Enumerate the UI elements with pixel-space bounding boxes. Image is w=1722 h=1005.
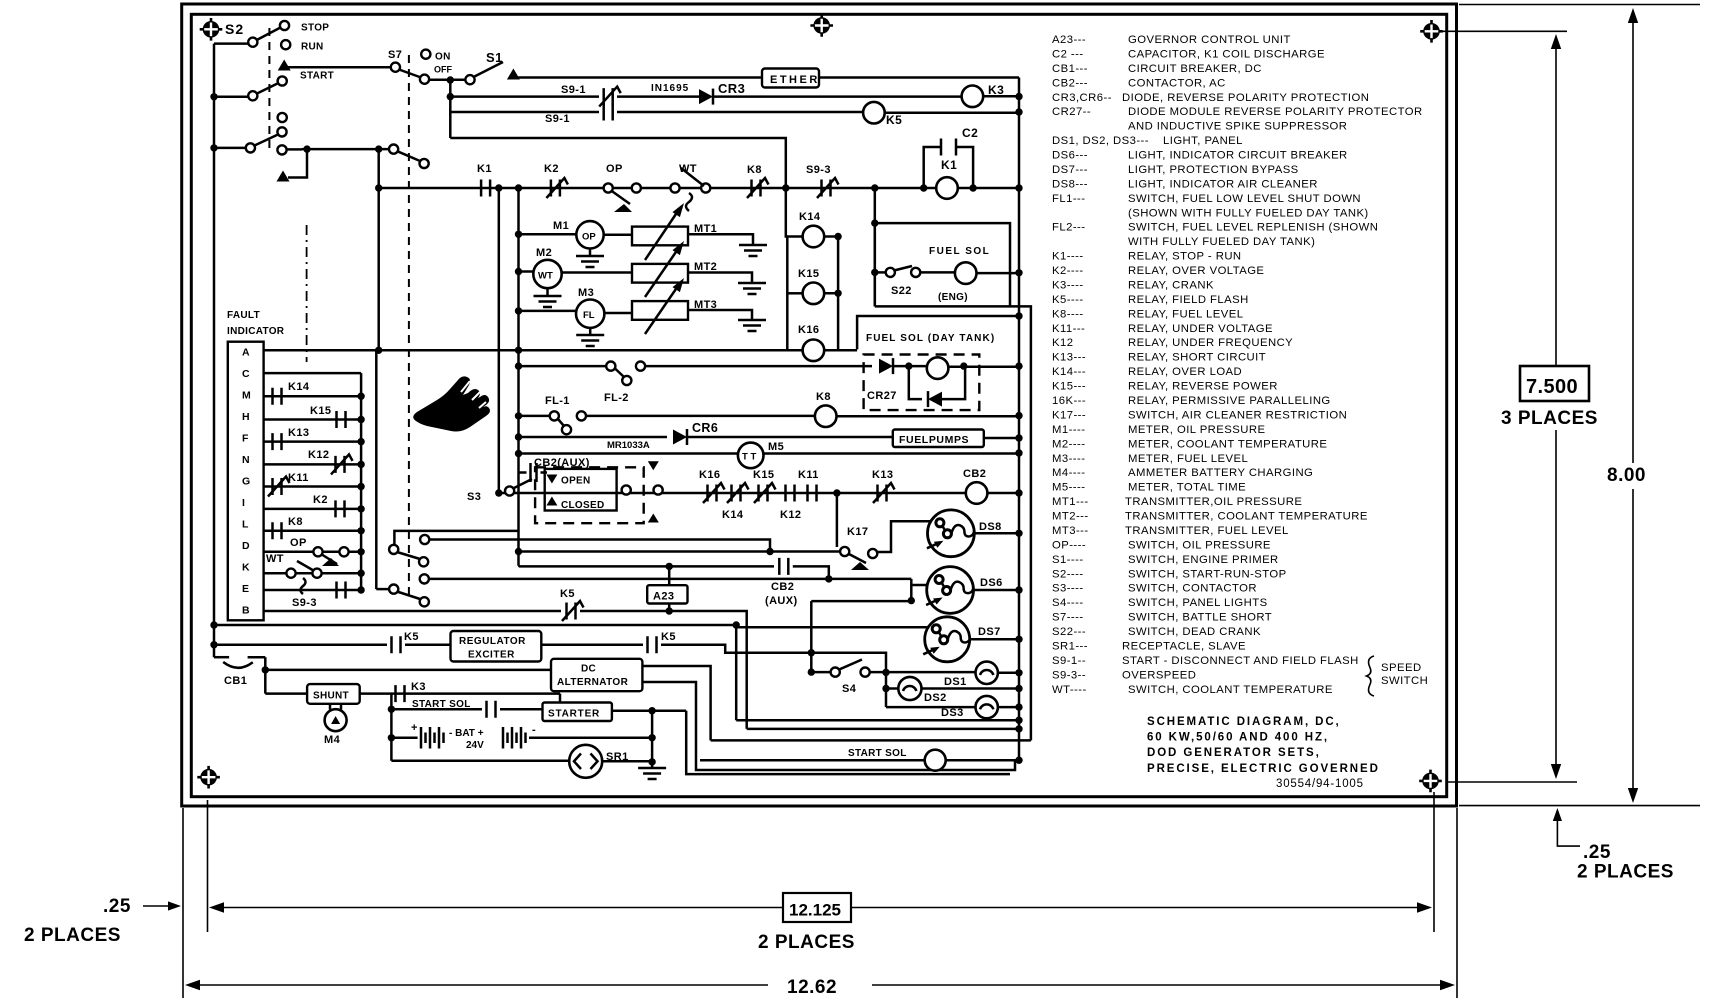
svg-text:K13: K13: [872, 469, 893, 481]
svg-text:(SHOWN WITH FULLY FUELED DAY T: (SHOWN WITH FULLY FUELED DAY TANK): [1128, 207, 1369, 219]
svg-text:LIGHT, PANEL: LIGHT, PANEL: [1163, 135, 1243, 147]
contact K2 (NC): [551, 180, 560, 197]
registration mark top-center: [810, 14, 833, 37]
svg-text:DOD GENERATOR SETS,: DOD GENERATOR SETS,: [1147, 747, 1321, 759]
dimension line 7.500 vertical: [1555, 46, 1557, 768]
svg-text:60 KW,50/60 AND 400 HZ,: 60 KW,50/60 AND 400 HZ,: [1147, 732, 1329, 744]
svg-text:TRANSMITTER, FUEL LEVEL: TRANSMITTER, FUEL LEVEL: [1125, 525, 1289, 537]
fault contact K11: [264, 485, 362, 488]
svg-text:L: L: [242, 519, 249, 531]
battery BAT 24V: [391, 737, 417, 740]
transmitter MT3: [632, 301, 688, 320]
fault switch OP: [264, 551, 362, 554]
svg-text:PRECISE, ELECTRIC GOVERNED: PRECISE, ELECTRIC GOVERNED: [1147, 763, 1380, 775]
extension line bottom-left outer: [182, 808, 184, 998]
solenoid FUEL SOL (DAY TANK): [905, 362, 912, 369]
wire to K5 coil: [617, 111, 863, 114]
leader .25 right: [1557, 818, 1580, 846]
svg-text:CR27--: CR27--: [1052, 106, 1091, 118]
svg-text:K11---: K11---: [1052, 323, 1085, 335]
svg-text:SWITCH, FUEL LOW LEVEL SHUT DO: SWITCH, FUEL LOW LEVEL SHUT DOWN: [1128, 193, 1361, 205]
svg-text:SWITCH, START-RUN-STOP: SWITCH, START-RUN-STOP: [1128, 568, 1287, 580]
fault indicator box: [228, 342, 264, 621]
svg-text:K11: K11: [798, 469, 819, 481]
wire M1 to MT1: [604, 234, 632, 237]
legend / parts list: [1052, 34, 1423, 696]
contact K8: [752, 180, 761, 197]
svg-text:DS6---: DS6---: [1052, 150, 1088, 162]
svg-text:FUEL SOL: FUEL SOL: [929, 246, 990, 257]
svg-text:OPEN: OPEN: [561, 476, 591, 487]
svg-text:A: A: [242, 347, 250, 359]
svg-text:ALTERNATOR: ALTERNATOR: [557, 677, 629, 688]
svg-text:DS7---: DS7---: [1052, 164, 1088, 176]
shunt resistor box: [307, 684, 360, 704]
wire start sol to bus: [946, 759, 1019, 762]
svg-text:-: -: [532, 724, 536, 736]
solenoid START SOL: [925, 750, 946, 771]
svg-text:SWITCH, BATTLE SHORT: SWITCH, BATTLE SHORT: [1128, 612, 1272, 624]
title block: [1147, 716, 1380, 775]
right bus vertical: [1018, 78, 1021, 761]
wire M5 to bus: [764, 452, 1020, 455]
svg-text:+: +: [411, 722, 417, 734]
svg-text:ON: ON: [435, 52, 451, 63]
starter box: [543, 703, 612, 722]
svg-text:2 PLACES: 2 PLACES: [758, 932, 855, 953]
relay coil K15: [786, 237, 789, 351]
box FUELPUMPS: [893, 430, 984, 448]
wire to regulator box: [405, 643, 451, 646]
S7 pole 2: [389, 145, 398, 154]
extension line bottom (7.500): [1447, 781, 1577, 783]
svg-text:WT: WT: [266, 553, 284, 565]
meter M3 (FL): [576, 300, 604, 328]
svg-text:RELAY, FUEL LEVEL: RELAY, FUEL LEVEL: [1128, 308, 1243, 320]
svg-text:K2----: K2----: [1052, 265, 1084, 277]
switch S2 pole 1: [214, 42, 248, 45]
svg-text:CR3: CR3: [718, 81, 745, 96]
wire long row A / K16: [515, 347, 522, 354]
svg-text:K14: K14: [799, 211, 821, 223]
feed rail x811: [811, 601, 831, 672]
contact K13 (NC): [878, 485, 887, 502]
svg-text:K15: K15: [310, 405, 331, 417]
registration mark bottom-left: [197, 766, 220, 789]
ground at SR1: [651, 762, 654, 768]
svg-text:D: D: [242, 540, 250, 552]
svg-text:3 PLACES: 3 PLACES: [1501, 408, 1598, 429]
node C2/K1 branch: [920, 184, 927, 191]
wire CR3 to K3 coil: [713, 95, 962, 98]
S2 contact 6: [277, 145, 286, 154]
contact START SOL: [487, 701, 496, 718]
wire DS7 row: [736, 626, 928, 629]
svg-text:DS1, DS2, DS3---: DS1, DS2, DS3---: [1052, 135, 1149, 147]
svg-text:MT2---: MT2---: [1052, 511, 1089, 523]
contact K16 (NC): [708, 485, 717, 502]
svg-text:E: E: [242, 583, 249, 595]
S7 lower pole A: [394, 531, 519, 550]
wire shunt row: [265, 692, 307, 695]
svg-text:K3: K3: [411, 681, 426, 693]
wire DS1 to bus: [998, 672, 1019, 675]
switch FL-2: [515, 362, 522, 369]
svg-text:FAULT: FAULT: [227, 310, 260, 321]
svg-text:A23---: A23---: [1052, 34, 1086, 46]
wire bottom row to SR1: [391, 760, 569, 763]
contact S9-11 capacitor: [604, 104, 613, 121]
svg-text:I: I: [242, 497, 245, 509]
svg-text:RELAY, UNDER FREQUENCY: RELAY, UNDER FREQUENCY: [1128, 337, 1293, 349]
S2 contact RUN: [281, 40, 290, 49]
svg-text:K12: K12: [1052, 337, 1073, 349]
svg-text:DIODE, REVERSE POLARITY PROTEC: DIODE, REVERSE POLARITY PROTECTION: [1122, 92, 1369, 104]
dimension line 8.00 vertical: [1632, 20, 1634, 790]
node vertical from S1 junction: [449, 80, 452, 138]
relay coil K5: [863, 102, 885, 124]
coil bank right rail: [824, 237, 838, 351]
wire rail row to CB2 aux contact: [519, 564, 775, 567]
svg-text:MT2: MT2: [694, 261, 717, 273]
wire K5 to staircase: [661, 645, 811, 653]
svg-text:K12: K12: [780, 509, 801, 521]
svg-text:K5: K5: [661, 631, 676, 643]
svg-text:K: K: [242, 562, 250, 574]
wire row 625 to DS7: [735, 625, 738, 627]
circuit breaker CB1: [214, 656, 229, 659]
fault switch WT: [264, 572, 362, 575]
dimension label box 12.125: [783, 893, 851, 922]
svg-text:SWITCH, OIL PRESSURE: SWITCH, OIL PRESSURE: [1128, 539, 1271, 551]
wire starter junction drop: [686, 711, 1010, 774]
wire K16 row to day tank frame: [824, 349, 857, 352]
wire DS8 to bus: [974, 532, 1019, 535]
extension line bottom (8.00 / .25): [1459, 805, 1700, 807]
meter M2 (WT): [533, 260, 561, 288]
svg-text:MR1033A: MR1033A: [607, 440, 650, 451]
svg-text:2 PLACES: 2 PLACES: [24, 925, 121, 946]
svg-text:K16: K16: [798, 324, 819, 336]
wire S9-1 row: [450, 95, 599, 98]
svg-text:C2 ---: C2 ---: [1052, 48, 1084, 60]
svg-text:2 PLACES: 2 PLACES: [1577, 862, 1674, 883]
svg-text:M4----: M4----: [1052, 467, 1085, 479]
vertical link fault row A to S7 poles: [376, 188, 378, 589]
svg-text:12.125: 12.125: [789, 901, 841, 920]
svg-text:8.00: 8.00: [1607, 465, 1646, 486]
wire MT1 to ground: [688, 234, 753, 245]
wire OFF to S1: [429, 79, 466, 82]
wire solenoid to bus: [960, 362, 967, 369]
svg-text:SHUNT: SHUNT: [313, 691, 349, 702]
svg-text:- BAT +: - BAT +: [449, 728, 484, 739]
svg-text:K2: K2: [313, 494, 328, 506]
contact K11: [808, 485, 817, 502]
svg-text:METER, FUEL LEVEL: METER, FUEL LEVEL: [1128, 453, 1248, 465]
extension line top (8.00): [1459, 4, 1700, 6]
svg-text:(ENG): (ENG): [938, 292, 968, 303]
svg-text:CLOSED: CLOSED: [561, 500, 604, 511]
svg-text:START - DISCONNECT AND FIELD F: START - DISCONNECT AND FIELD FLASH: [1122, 655, 1359, 667]
svg-text:LIGHT, PROTECTION BYPASS: LIGHT, PROTECTION BYPASS: [1128, 164, 1299, 176]
svg-text:WITH FULLY FUELED DAY TANK): WITH FULLY FUELED DAY TANK): [1128, 236, 1315, 248]
wire DC alternator out upper: [642, 666, 710, 740]
svg-text:S4: S4: [842, 683, 857, 695]
wire START SOL row: [700, 759, 925, 762]
wire S22 box bottom to right outer bus: [875, 306, 1031, 740]
svg-text:K8: K8: [288, 516, 303, 528]
switch WT (temperature): [670, 183, 679, 192]
contact S9-3 (NC): [822, 180, 831, 197]
svg-text:K13: K13: [288, 427, 309, 439]
svg-text:REGULATOR: REGULATOR: [459, 636, 526, 647]
wire CB2 aux to DS6 feed: [793, 566, 829, 579]
ETHER line start triangle: [507, 69, 520, 80]
extension line bottom-left inner: [207, 800, 209, 932]
svg-text:DS7: DS7: [978, 626, 1001, 638]
contact K3: [396, 685, 405, 702]
svg-text:K1----: K1----: [1052, 251, 1084, 263]
svg-text:.25: .25: [1583, 842, 1611, 863]
wire S9-11 row: [450, 111, 599, 114]
wire DS7 to bus: [970, 638, 1019, 641]
svg-text:K3----: K3----: [1052, 280, 1084, 292]
svg-text:CB2: CB2: [963, 468, 986, 480]
receptacle SR1: [569, 745, 602, 778]
governor unit A23: [668, 566, 671, 611]
wire CR6 row: [515, 433, 522, 440]
svg-text:.25: .25: [103, 896, 131, 917]
svg-text:FUEL SOL (DAY TANK): FUEL SOL (DAY TANK): [866, 333, 995, 344]
lamp DS6: [911, 584, 928, 587]
wire MT3 to ground: [688, 310, 752, 320]
svg-text:K15---: K15---: [1052, 381, 1086, 393]
svg-text:SCHEMATIC DIAGRAM, DC,: SCHEMATIC DIAGRAM, DC,: [1147, 716, 1341, 728]
panel lamp DS3: [886, 706, 976, 709]
S7 lower pole B: [376, 588, 389, 591]
svg-text:K14---: K14---: [1052, 366, 1086, 378]
switch FL-1: [515, 412, 522, 419]
day tank frame wire: [857, 316, 1019, 349]
svg-text:30554/94-1005: 30554/94-1005: [1276, 778, 1364, 790]
svg-text:OP: OP: [582, 232, 596, 243]
fault contact K2: [264, 508, 362, 511]
dashed module CR27: [864, 355, 980, 411]
rail meters: [517, 188, 520, 566]
svg-text:C: C: [242, 368, 250, 380]
markers at switch: [648, 461, 659, 470]
contact row y493: [514, 492, 966, 495]
wire M3 to MT3: [604, 312, 632, 315]
contact K5 (NC) on fault B row: [567, 603, 576, 620]
wire to starter box: [500, 708, 543, 711]
svg-text:K3: K3: [988, 83, 1004, 97]
svg-text:S9-1: S9-1: [545, 113, 570, 125]
svg-text:RELAY, OVER VOLTAGE: RELAY, OVER VOLTAGE: [1128, 265, 1264, 277]
start sol rail: [390, 694, 393, 761]
svg-text:CB2: CB2: [771, 581, 794, 593]
wire contact row: [379, 187, 1019, 190]
svg-text:LIGHT, INDICATOR AIR CLEANER: LIGHT, INDICATOR AIR CLEANER: [1128, 178, 1318, 190]
relay coil K8: [815, 405, 837, 427]
relay coil K14: [786, 188, 803, 237]
contact K12: [786, 485, 795, 502]
svg-text:WT----: WT----: [1052, 684, 1087, 696]
svg-text:SWITCH, PANEL LIGHTS: SWITCH, PANEL LIGHTS: [1128, 597, 1268, 609]
contactor coil CB2: [966, 482, 988, 504]
dashed boundary CB2 aux: [535, 467, 644, 523]
svg-text:7.500: 7.500: [1526, 376, 1578, 398]
svg-text:DIODE MODULE REVERSE POLARITY: DIODE MODULE REVERSE POLARITY PROTECTOR: [1128, 106, 1423, 118]
wire starter to junction: [612, 709, 686, 712]
svg-text:RELAY, FIELD FLASH: RELAY, FIELD FLASH: [1128, 294, 1249, 306]
contact K5: [392, 636, 401, 653]
wire regulator to K5 contact 2: [541, 643, 643, 646]
panel outer border: [182, 4, 1457, 806]
svg-text:M5: M5: [768, 441, 784, 453]
fault indicator letters: [242, 347, 251, 617]
svg-text:METER, OIL PRESSURE: METER, OIL PRESSURE: [1128, 424, 1265, 436]
wire row 625: [210, 621, 217, 628]
diode CR27 forward: [879, 359, 893, 374]
svg-text:K14: K14: [722, 509, 744, 521]
svg-text:SPEED: SPEED: [1381, 662, 1422, 674]
extension line bottom-right outer: [1456, 808, 1458, 998]
svg-text:M1----: M1----: [1052, 424, 1085, 436]
svg-text:STARTER: STARTER: [548, 709, 600, 720]
fault contact K12: [264, 463, 362, 466]
svg-text:K1: K1: [477, 163, 492, 175]
junction rail: [651, 711, 654, 762]
fault contact K14: [264, 395, 362, 398]
svg-text:FL-1: FL-1: [545, 395, 570, 407]
svg-text:M: M: [242, 390, 251, 402]
wire K5 to right bus: [885, 111, 1019, 114]
svg-text:DS6: DS6: [980, 577, 1003, 589]
svg-text:SWITCH, FUEL LEVEL REPLENISH (: SWITCH, FUEL LEVEL REPLENISH (SHOWN: [1128, 222, 1378, 234]
wire left bus vertical: [213, 44, 216, 658]
svg-text:K17: K17: [847, 526, 868, 538]
svg-text:START SOL: START SOL: [848, 748, 907, 759]
svg-text:K8----: K8----: [1052, 308, 1084, 320]
wire MT2 to ground: [688, 273, 752, 284]
svg-text:16K---: 16K---: [1052, 395, 1086, 407]
fault contact K8: [264, 530, 362, 533]
wire S2 START to S7: [287, 66, 390, 69]
svg-text:MT1---: MT1---: [1052, 496, 1089, 508]
svg-text:K11: K11: [288, 472, 309, 484]
dash-dot linkage: [306, 225, 308, 362]
panel inner border: [191, 14, 1446, 796]
svg-text:T T: T T: [742, 452, 756, 463]
rail from contact row down: [874, 188, 877, 306]
svg-text:INDICATOR: INDICATOR: [227, 326, 285, 337]
contact S9-1: [604, 88, 613, 105]
dimension line 12.125: [220, 907, 1421, 909]
S2 linkage dashed: [268, 28, 270, 150]
registration mark bottom-right: [1419, 770, 1442, 793]
svg-text:K17---: K17---: [1052, 409, 1086, 421]
svg-text:K5----: K5----: [1052, 294, 1084, 306]
wire pole A fixed out: [429, 540, 770, 552]
panel lamp DS1: [976, 662, 998, 684]
svg-text:RELAY, REVERSE POWER: RELAY, REVERSE POWER: [1128, 381, 1278, 393]
rail to S3 row: [498, 188, 501, 493]
svg-text:K8: K8: [747, 164, 762, 176]
wire M1 row: [515, 231, 522, 238]
svg-text:M1: M1: [553, 220, 569, 232]
svg-text:C2: C2: [962, 126, 978, 140]
svg-text:H: H: [242, 411, 250, 423]
marker closed: [546, 497, 557, 506]
svg-text:RELAY, CRANK: RELAY, CRANK: [1128, 280, 1214, 292]
capacitor C2: [924, 147, 973, 188]
svg-text:24V: 24V: [466, 740, 484, 751]
svg-text:RELAY, STOP - RUN: RELAY, STOP - RUN: [1128, 251, 1242, 263]
wire pole B fixed to DS6 feed: [429, 578, 911, 581]
contact CB2(AUX) lower: [779, 558, 788, 575]
svg-text:CR6: CR6: [692, 421, 718, 435]
svg-text:DS2: DS2: [924, 692, 947, 704]
svg-text:SWITCH: SWITCH: [1381, 675, 1428, 687]
svg-text:S9-1--: S9-1--: [1052, 655, 1086, 667]
wire DC alternator row: [265, 669, 551, 672]
svg-text:S2----: S2----: [1052, 568, 1084, 580]
wire shunt to K3: [360, 692, 560, 695]
svg-text:K5: K5: [404, 631, 419, 643]
svg-text:RELAY, SHORT CIRCUIT: RELAY, SHORT CIRCUIT: [1128, 352, 1266, 364]
contact K1: [481, 180, 490, 197]
S2 contact 4: [278, 113, 287, 122]
svg-text:S2: S2: [225, 21, 244, 37]
fault bus vertical: [360, 373, 363, 590]
wire FL-2 row into module: [645, 365, 872, 368]
svg-text:IN1695: IN1695: [651, 83, 689, 94]
node: wire from S2 to S7 second pole: [303, 145, 310, 152]
S2 START feed triangle: [278, 60, 291, 71]
wire K17 row: [519, 550, 842, 553]
wire DS3 to bus: [998, 706, 1019, 709]
extension line from top-right registration mark (7.500): [1442, 30, 1567, 32]
vertical from K13 branch: [836, 493, 839, 547]
svg-text:SR1---: SR1---: [1052, 641, 1088, 653]
fault row C: [264, 372, 362, 375]
svg-text:RELAY, OVER LOAD: RELAY, OVER LOAD: [1128, 366, 1242, 378]
svg-text:WT: WT: [679, 163, 697, 175]
svg-text:K5: K5: [560, 588, 575, 600]
wire M5 row: [515, 450, 522, 457]
svg-text:S9-1: S9-1: [561, 84, 586, 96]
diode CR6: [673, 430, 687, 445]
svg-text:CR3,CR6--: CR3,CR6--: [1052, 92, 1112, 104]
START return triangle: [277, 171, 290, 182]
wire B row to staircase: [580, 611, 747, 729]
svg-text:M4: M4: [324, 734, 341, 746]
svg-text:OFF: OFF: [434, 65, 452, 75]
wire row 720: [736, 719, 1019, 722]
svg-text:SWITCH, ENGINE PRIMER: SWITCH, ENGINE PRIMER: [1128, 554, 1279, 566]
svg-text:12.62: 12.62: [787, 977, 837, 998]
contact K5 second: [648, 636, 657, 653]
svg-text:S1----: S1----: [1052, 554, 1084, 566]
wire row 740 from outer bus: [711, 739, 1031, 742]
wire ETHER row: [513, 76, 762, 79]
svg-text:K1: K1: [941, 158, 957, 172]
meter M1 (OP): [576, 221, 603, 248]
svg-text:N: N: [242, 454, 250, 466]
contact K14 (NC): [732, 485, 741, 502]
